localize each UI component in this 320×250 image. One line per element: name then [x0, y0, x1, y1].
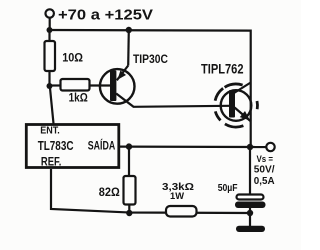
- wire: [50, 86, 54, 124]
- wire output SAIDA: [120, 146, 266, 149]
- wire: [48, 30, 50, 41]
- resistor 3.3k ohm: [166, 206, 197, 217]
- svg-text:+70 a +125V: +70 a +125V: [58, 7, 153, 24]
- svg-text:TIPL762: TIPL762: [201, 61, 244, 77]
- svg-text:1W: 1W: [170, 191, 184, 202]
- transistor TIP30C emitter arrow: [118, 70, 127, 79]
- wire: [128, 205, 130, 214]
- svg-text:0,5A: 0,5A: [254, 176, 275, 187]
- resistor 82 ohm: [124, 176, 136, 205]
- wire from REF pin to ground rail: [51, 169, 250, 213]
- wire: [48, 71, 50, 86]
- svg-text:50V/: 50V/: [254, 164, 275, 175]
- svg-text:TIP30C: TIP30C: [133, 52, 168, 66]
- wire emitter drop Q1: [127, 30, 130, 66]
- junction node bottom 82ohm: [126, 210, 132, 216]
- transistor TIPL762 base bar: [229, 90, 235, 118]
- resistor 1k ohm: [61, 79, 90, 91]
- transistor TIPL762 circle: [221, 90, 252, 121]
- wire: [90, 84, 111, 86]
- transistor TIP30C base bar: [110, 71, 116, 102]
- junction node bottom capacitor: [247, 210, 253, 216]
- transistor TIPL762 outer arcs: [215, 84, 257, 127]
- wire: [49, 18, 51, 30]
- regulator box TL783C: [26, 125, 119, 168]
- transistor TIP30C collector: [116, 94, 229, 107]
- ground bar: [236, 226, 265, 232]
- svg-text:REF.: REF.: [41, 154, 62, 168]
- svg-text:SAÍDA: SAÍDA: [88, 140, 115, 153]
- capacitor 50uF bottom plate: [235, 202, 266, 209]
- input terminal: [46, 9, 54, 17]
- junction node output: [247, 144, 253, 150]
- junction node between 10ohm and 1kohm: [47, 83, 53, 89]
- output terminal: [266, 143, 274, 151]
- junction node saida / 82ohm: [126, 143, 132, 149]
- transistor TIP30C emitter: [117, 66, 128, 81]
- svg-text:TL783C: TL783C: [38, 139, 74, 153]
- svg-text:10Ω: 10Ω: [62, 51, 83, 65]
- svg-text:ENT.: ENT.: [40, 125, 60, 137]
- capacitor 50uF top plate: [237, 195, 264, 200]
- wire top rail: [50, 30, 251, 147]
- junction node Q1 emitter at rail: [126, 27, 132, 33]
- svg-text:Vs =: Vs =: [257, 154, 274, 164]
- wire: [249, 208, 251, 226]
- resistor 10 ohm: [45, 41, 56, 71]
- transistor TIPL762 collector: [234, 83, 251, 94]
- wire 82 ohm drop: [128, 147, 130, 176]
- wire capacitor drop: [249, 147, 251, 195]
- transistor TIPL762 emitter: [235, 108, 252, 122]
- wire: [50, 84, 61, 86]
- svg-text:82Ω: 82Ω: [99, 185, 120, 199]
- svg-text:1kΩ: 1kΩ: [69, 93, 88, 105]
- junction node top left: [47, 27, 53, 33]
- svg-text:50µF: 50µF: [218, 182, 238, 194]
- transistor TIP30C circle: [100, 69, 135, 104]
- transistor TIPL762 emitter arrow: [240, 111, 250, 121]
